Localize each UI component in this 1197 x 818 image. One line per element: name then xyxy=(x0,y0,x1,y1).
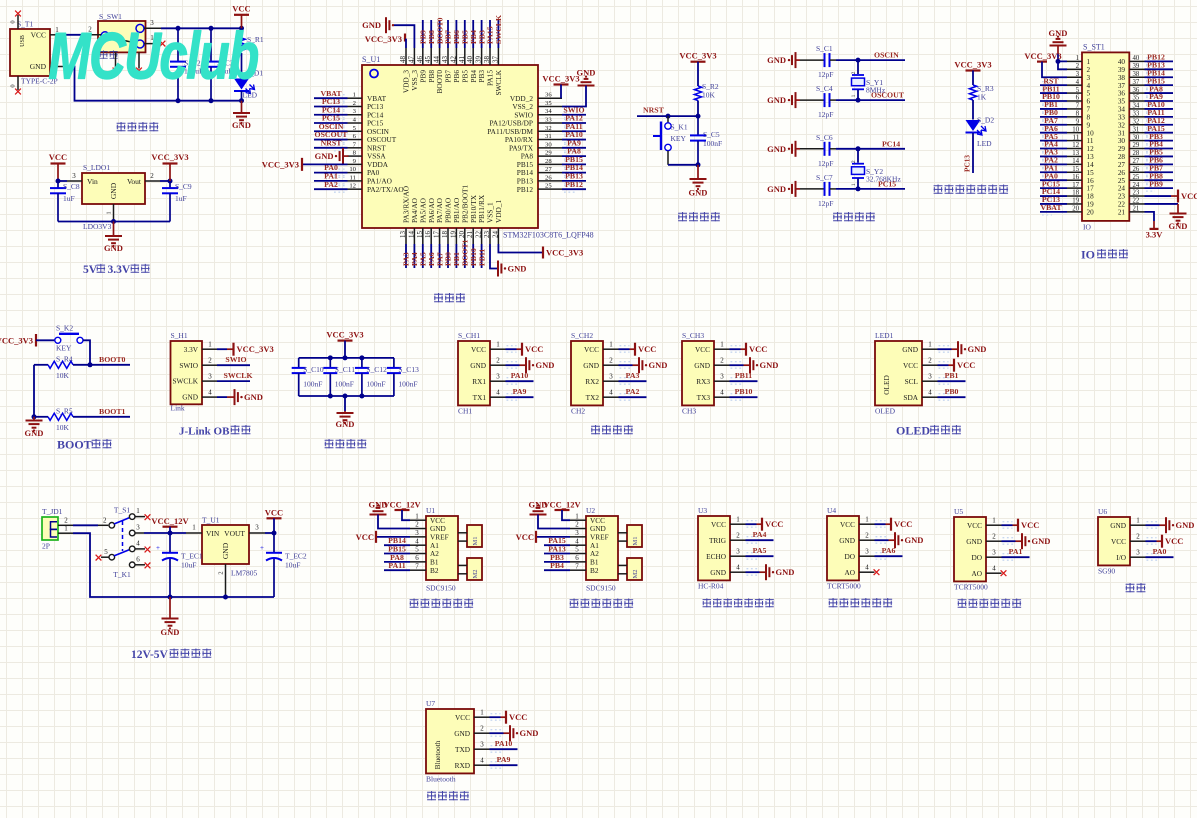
svg-text:5: 5 xyxy=(1076,87,1080,94)
wire net PA10 xyxy=(490,746,518,753)
wire to GND xyxy=(1146,522,1166,529)
wire net PB4 (U2) xyxy=(544,569,570,571)
net label PA2 xyxy=(626,387,640,396)
capacitor S_C7 xyxy=(800,173,836,208)
wire net PB0 xyxy=(447,244,449,268)
svg-text:24: 24 xyxy=(491,231,499,239)
wire NRST xyxy=(637,115,698,117)
junction xyxy=(856,98,861,103)
svg-text:12: 12 xyxy=(349,183,356,190)
wire switch to VIN xyxy=(144,532,186,534)
wire net PB12 xyxy=(562,186,586,193)
svg-text:28: 28 xyxy=(1133,150,1140,157)
net label PB4 xyxy=(469,30,478,44)
svg-text:35: 35 xyxy=(1118,98,1126,106)
title 超声波测距模块 xyxy=(703,598,774,607)
svg-text:3.3V: 3.3V xyxy=(184,345,199,354)
svg-text:7: 7 xyxy=(415,562,419,570)
module S_CH1 pins xyxy=(490,341,506,398)
wire net PA11 (header) xyxy=(1145,113,1174,120)
net label PB0 xyxy=(444,252,453,266)
svg-text:VCC: VCC xyxy=(957,360,975,370)
net label PB12 xyxy=(1147,53,1165,62)
svg-text:4: 4 xyxy=(415,537,419,545)
ground GND xyxy=(526,357,554,373)
junction xyxy=(696,162,701,167)
net label PB4 xyxy=(1149,140,1163,149)
svg-text:GND: GND xyxy=(760,360,779,370)
wire net PA10 xyxy=(506,378,534,385)
svg-text:1: 1 xyxy=(609,341,613,349)
svg-text:34: 34 xyxy=(545,108,552,115)
svg-text:OLED: OLED xyxy=(875,406,896,415)
svg-text:PA4: PA4 xyxy=(753,530,767,539)
svg-text:32: 32 xyxy=(1118,121,1126,129)
wire net PB9 xyxy=(422,20,424,48)
wire net PA7 (header) xyxy=(1040,121,1067,128)
svg-text:2: 2 xyxy=(103,516,107,524)
svg-text:IO: IO xyxy=(1083,223,1091,232)
wire net PA3 xyxy=(405,244,407,268)
svg-text:S_LDO1: S_LDO1 xyxy=(83,163,110,172)
pin 4 of S_SW1 xyxy=(115,52,117,68)
net label BOOT0 xyxy=(435,17,444,44)
junction xyxy=(359,355,364,360)
svg-text:1: 1 xyxy=(575,512,579,520)
wire net PB7 (header) xyxy=(1145,169,1174,176)
svg-text:1uF: 1uF xyxy=(175,194,187,203)
net label PB1 xyxy=(1044,100,1058,109)
header S_ST1 right pins xyxy=(1129,55,1144,212)
capacitor T_EC1 xyxy=(156,533,203,597)
net label PA11 xyxy=(388,561,405,570)
svg-text:S_T1: S_T1 xyxy=(17,20,34,29)
svg-text:3: 3 xyxy=(1076,71,1080,78)
svg-text:SDA: SDA xyxy=(903,393,918,402)
wire pin4 to GND xyxy=(217,396,234,398)
no-connect S1 pin4 xyxy=(145,547,151,553)
svg-text:4: 4 xyxy=(208,389,212,397)
wire net PA6 xyxy=(430,244,432,268)
svg-text:PB11: PB11 xyxy=(477,249,486,266)
svg-text:32: 32 xyxy=(545,125,552,132)
svg-text:VIN: VIN xyxy=(206,529,220,538)
wire net PC15 xyxy=(836,188,905,190)
svg-text:S_CH1: S_CH1 xyxy=(458,331,480,340)
net label SWIO xyxy=(225,355,246,364)
net label PA7 xyxy=(1044,116,1058,125)
net label PA12 xyxy=(565,114,583,123)
pin 2 of T_U1 xyxy=(218,564,226,597)
wire net RST (header) xyxy=(1040,82,1067,89)
wire net PA4 (header) xyxy=(1040,145,1067,152)
no-connect K1 pin5 xyxy=(96,555,102,561)
motor connector M2 (U1) xyxy=(458,558,482,580)
net label PC13 xyxy=(1042,195,1060,204)
svg-text:2: 2 xyxy=(353,100,356,107)
svg-text:PA6: PA6 xyxy=(882,546,896,555)
module LED1 pins xyxy=(922,341,938,398)
svg-text:VCC: VCC xyxy=(711,520,726,529)
svg-text:44: 44 xyxy=(433,56,441,64)
svg-text:36: 36 xyxy=(1133,87,1140,94)
svg-text:AO: AO xyxy=(971,569,982,578)
pin 3 of S_LDO1 xyxy=(67,172,82,181)
switch T_S1/T_K1 xyxy=(98,506,145,580)
net label PA5 xyxy=(1044,132,1058,141)
svg-text:3: 3 xyxy=(736,548,740,556)
svg-text:2: 2 xyxy=(496,357,500,365)
svg-text:SWCLK: SWCLK xyxy=(494,15,503,44)
svg-text:1: 1 xyxy=(851,183,857,186)
svg-text:PB0: PB0 xyxy=(945,387,959,396)
svg-text:BOOT1: BOOT1 xyxy=(99,407,126,416)
svg-text:B2: B2 xyxy=(590,566,599,575)
net label BOOT1 xyxy=(99,407,126,416)
wire net PB9 (header) xyxy=(1145,185,1174,192)
svg-text:GND: GND xyxy=(767,144,786,154)
svg-text:19: 19 xyxy=(1087,201,1095,209)
svg-text:4: 4 xyxy=(992,565,996,573)
svg-text:BOOT0: BOOT0 xyxy=(99,355,126,364)
capacitor S_C3 xyxy=(203,28,234,100)
wire net PB15 (U1) xyxy=(384,553,410,555)
svg-text:PB12: PB12 xyxy=(565,180,583,189)
net label PC15 xyxy=(878,179,896,188)
capacitor S_C8 xyxy=(50,181,80,222)
wire net SWCLK (jlink) xyxy=(217,380,250,382)
net label PA5 xyxy=(753,546,767,555)
svg-text:7: 7 xyxy=(575,562,579,570)
svg-text:16: 16 xyxy=(1087,177,1095,185)
svg-text:21: 21 xyxy=(1133,206,1140,213)
label 开关 xyxy=(100,50,118,59)
net label PA11 xyxy=(1147,108,1164,117)
svg-text:VCC: VCC xyxy=(894,519,912,529)
svg-text:PA2: PA2 xyxy=(324,180,338,189)
net label PB1 xyxy=(945,371,959,380)
wire net VBAT xyxy=(314,95,348,102)
svg-text:NRST: NRST xyxy=(643,105,665,114)
svg-text:VCC_12V: VCC_12V xyxy=(543,500,581,510)
svg-text:T_EC2: T_EC2 xyxy=(285,552,307,561)
svg-text:17: 17 xyxy=(1087,185,1095,193)
ground GND (header top) xyxy=(1049,28,1068,69)
svg-text:S_C6: S_C6 xyxy=(816,133,833,142)
svg-text:M1: M1 xyxy=(632,536,639,545)
pin 2 of T_JD1 xyxy=(58,516,73,525)
svg-text:4: 4 xyxy=(720,389,724,397)
wire net OSCIN xyxy=(836,59,905,61)
driver U1 pins xyxy=(410,512,426,570)
svg-text:3: 3 xyxy=(609,373,613,381)
ground GND (VSSA pin 8) xyxy=(315,148,349,164)
svg-text:12V-5V: 12V-5V xyxy=(131,649,169,661)
title 串口电路 xyxy=(591,425,633,434)
svg-text:2: 2 xyxy=(851,71,857,74)
svg-text:ECHO: ECHO xyxy=(706,552,726,561)
ground GND xyxy=(958,341,986,357)
svg-text:43: 43 xyxy=(441,56,449,64)
power port VCC_3V3 (VDD_2) xyxy=(542,74,579,99)
wire net OSCOUT xyxy=(314,136,348,143)
svg-text:40: 40 xyxy=(466,56,474,64)
svg-text:S_K1: S_K1 xyxy=(671,123,688,132)
net label VBAT xyxy=(1040,203,1062,212)
svg-text:21: 21 xyxy=(466,231,474,239)
svg-text:VCC: VCC xyxy=(1165,536,1183,546)
svg-text:25: 25 xyxy=(545,183,552,190)
svg-text:30: 30 xyxy=(1118,137,1126,145)
wire net PB1 xyxy=(938,378,966,385)
net label PA1 xyxy=(324,172,338,181)
wire net PC13 (header) xyxy=(1040,200,1067,207)
svg-text:PB1: PB1 xyxy=(945,371,959,380)
power port VCC_3V3 (header) xyxy=(1024,51,1067,77)
svg-text:45: 45 xyxy=(424,56,432,64)
svg-text:36: 36 xyxy=(545,92,552,99)
net label PA15 xyxy=(486,26,495,44)
junction xyxy=(856,58,861,63)
wire net PB1 xyxy=(455,244,457,268)
svg-text:RXD: RXD xyxy=(455,761,470,770)
switch S_SW1 xyxy=(98,12,146,52)
svg-text:PB10: PB10 xyxy=(735,387,753,396)
wire net PA6 (header) xyxy=(1040,129,1067,136)
capacitor S_C2 xyxy=(170,28,203,100)
power port VCC xyxy=(746,343,767,356)
svg-text:5V: 5V xyxy=(83,264,98,276)
junction xyxy=(1056,59,1061,64)
svg-text:6: 6 xyxy=(415,554,419,562)
svg-text:38: 38 xyxy=(1118,74,1126,82)
svg-text:5: 5 xyxy=(1087,90,1091,98)
net label PA8 xyxy=(390,553,404,562)
title 舵机 xyxy=(1126,583,1146,592)
net label PA9 xyxy=(497,755,511,764)
svg-text:GND: GND xyxy=(520,728,539,738)
svg-text:GND: GND xyxy=(583,361,599,370)
svg-text:35: 35 xyxy=(1133,95,1140,102)
wire to GND xyxy=(506,362,526,369)
svg-text:TXD: TXD xyxy=(455,745,470,754)
wire net PC15 xyxy=(314,120,348,127)
svg-text:1: 1 xyxy=(720,341,724,349)
svg-text:M2: M2 xyxy=(472,569,479,578)
svg-text:VCC: VCC xyxy=(471,345,486,354)
svg-text:26: 26 xyxy=(1133,166,1140,173)
net label PC13 xyxy=(963,155,972,172)
svg-text:NRST: NRST xyxy=(321,138,343,147)
capacitor S_C1 xyxy=(800,44,836,79)
wire to VCC xyxy=(875,521,891,528)
net label PA9 xyxy=(513,387,527,396)
ground GND (S_C6 row) xyxy=(767,141,800,157)
key S_K1 xyxy=(653,116,688,165)
svg-text:SWCLK: SWCLK xyxy=(223,371,252,380)
net label PA2 xyxy=(1044,156,1058,165)
junction xyxy=(111,219,116,224)
connector S_T1 xyxy=(10,20,58,86)
wire net SWIO (jlink) xyxy=(217,364,250,366)
crystal S_Y2 xyxy=(851,149,901,189)
wire VCC to Vin xyxy=(58,180,67,182)
svg-text:1K: 1K xyxy=(977,93,987,102)
ground GND (S_C7 row) xyxy=(767,181,800,197)
header S_H1 body xyxy=(171,331,203,413)
svg-text:2: 2 xyxy=(928,357,932,365)
power port VCC_3V3 (VDD_1) xyxy=(543,247,583,259)
svg-text:48: 48 xyxy=(399,56,407,64)
svg-text:PA11: PA11 xyxy=(388,561,405,570)
resistor S_R1 xyxy=(238,28,264,78)
net label PB11 xyxy=(735,371,752,380)
no-connect SW1 pin5 xyxy=(136,68,142,74)
svg-text:S_C12: S_C12 xyxy=(366,365,387,374)
svg-text:S_C4: S_C4 xyxy=(816,84,833,93)
module U6 body xyxy=(1098,507,1130,575)
svg-text:42: 42 xyxy=(449,56,457,64)
net label PB15 xyxy=(565,155,583,164)
svg-text:GND: GND xyxy=(182,393,198,402)
net label PB3 xyxy=(477,30,486,44)
svg-text:100nF: 100nF xyxy=(398,380,417,389)
wire net PB4 (header) xyxy=(1145,145,1174,152)
power port VCC xyxy=(762,518,783,531)
svg-text:U6: U6 xyxy=(1098,507,1107,516)
wire net PA2 xyxy=(314,186,348,193)
svg-text:40: 40 xyxy=(1133,55,1140,62)
wire JD1 pin2 to switch xyxy=(73,524,98,526)
net label BOOT0 xyxy=(99,355,126,364)
wire net PB5 xyxy=(464,20,466,48)
net label NRST xyxy=(643,105,665,114)
svg-text:GND: GND xyxy=(454,729,470,738)
svg-text:1: 1 xyxy=(928,341,932,349)
title 红外循迹模块(2) xyxy=(958,599,1022,608)
svg-text:TRIG: TRIG xyxy=(709,536,727,545)
svg-text:3: 3 xyxy=(208,373,212,381)
svg-text:M2: M2 xyxy=(632,569,639,578)
net label PA3 xyxy=(1044,148,1058,157)
wire pin22 to GND xyxy=(1145,204,1179,214)
svg-text:GND: GND xyxy=(508,264,527,274)
svg-text:6: 6 xyxy=(136,556,140,564)
pin 1 of S_T1 xyxy=(50,26,65,35)
motor connector M1 (U1) xyxy=(458,525,482,547)
net label PB8 xyxy=(1149,171,1163,180)
wire pin21 to 3.3V xyxy=(1145,212,1155,229)
svg-text:VCC: VCC xyxy=(695,345,710,354)
svg-text:TX1: TX1 xyxy=(473,393,487,402)
net label PA6 xyxy=(1044,124,1058,133)
no-connect U5 AO xyxy=(1001,570,1007,576)
power port VCC xyxy=(635,343,656,356)
junction xyxy=(32,414,37,419)
svg-text:T_U1: T_U1 xyxy=(202,516,220,525)
driver U2 body xyxy=(586,506,618,593)
svg-text:36: 36 xyxy=(1118,90,1126,98)
svg-text:31: 31 xyxy=(1118,129,1126,137)
wire T1 pin1 to SW1 xyxy=(65,34,83,36)
wire VOUT to VCC xyxy=(265,532,274,534)
svg-text:10uF: 10uF xyxy=(285,561,300,570)
svg-text:S_K2: S_K2 xyxy=(56,324,73,333)
svg-text:37: 37 xyxy=(1133,79,1140,86)
wire net PA1 (header) xyxy=(1040,169,1067,176)
svg-text:10K: 10K xyxy=(56,423,70,432)
svg-text:4: 4 xyxy=(480,757,484,765)
svg-text:VCC: VCC xyxy=(31,31,46,40)
svg-text:M1: M1 xyxy=(472,536,479,545)
title 直流电机电路(2) xyxy=(570,599,634,608)
svg-text:2: 2 xyxy=(150,172,154,180)
capacitor S_C11 xyxy=(323,358,355,396)
wire net PA9 xyxy=(562,144,586,151)
svg-text:41: 41 xyxy=(458,56,466,64)
svg-text:2: 2 xyxy=(609,357,613,365)
power port VCC xyxy=(522,343,543,356)
svg-text:38: 38 xyxy=(483,56,491,64)
svg-text:7: 7 xyxy=(1087,106,1091,114)
net label PB10 xyxy=(1042,92,1060,101)
connector T_JD1 xyxy=(42,507,63,551)
svg-text:26: 26 xyxy=(545,174,552,181)
svg-text:15: 15 xyxy=(416,231,424,239)
svg-text:2P: 2P xyxy=(42,542,50,551)
wire net PB15 xyxy=(562,161,586,168)
net label OSCOUT xyxy=(871,91,905,100)
net label PB15 xyxy=(388,545,406,554)
power port VCC xyxy=(954,359,975,372)
no-connect SW1 pin1 xyxy=(160,41,166,47)
svg-text:9: 9 xyxy=(1087,121,1091,129)
mcu U1 right pins 36-25 xyxy=(538,92,562,190)
wire net PB3 (U2) xyxy=(544,561,570,563)
svg-text:GND: GND xyxy=(536,360,555,370)
svg-text:6: 6 xyxy=(575,554,579,562)
svg-text:29: 29 xyxy=(545,150,552,157)
ground GND (VSS_1) xyxy=(498,261,526,277)
wire net PB14 (header) xyxy=(1145,74,1174,81)
wire net PB3 xyxy=(481,20,483,48)
net label PB12 xyxy=(565,180,583,189)
wire net SWCLK xyxy=(497,20,499,48)
junction xyxy=(343,355,348,360)
svg-text:27: 27 xyxy=(545,166,552,173)
svg-text:U2: U2 xyxy=(586,506,595,515)
svg-text:KEY: KEY xyxy=(56,344,72,353)
svg-text:PA9: PA9 xyxy=(513,387,527,396)
wire net PB10 (header) xyxy=(1040,98,1067,105)
svg-text:21: 21 xyxy=(1118,208,1126,216)
junction xyxy=(359,394,364,399)
wire net PA11 xyxy=(562,128,586,135)
svg-text:GND: GND xyxy=(767,95,786,105)
power port VCC_3V3 (boot) xyxy=(0,334,55,347)
svg-text:29: 29 xyxy=(1133,142,1140,149)
svg-text:2: 2 xyxy=(64,516,68,524)
title 复位电路 xyxy=(678,212,720,221)
svg-text:12pF: 12pF xyxy=(818,110,833,119)
net label VBAT xyxy=(320,89,342,98)
wire net PB6 xyxy=(455,20,457,48)
svg-text:12pF: 12pF xyxy=(818,70,833,79)
wire net PA5 xyxy=(746,553,774,560)
title 主芯片 xyxy=(434,293,465,302)
svg-text:SDC9150: SDC9150 xyxy=(426,584,456,593)
svg-text:VCC_3V3: VCC_3V3 xyxy=(151,152,188,162)
